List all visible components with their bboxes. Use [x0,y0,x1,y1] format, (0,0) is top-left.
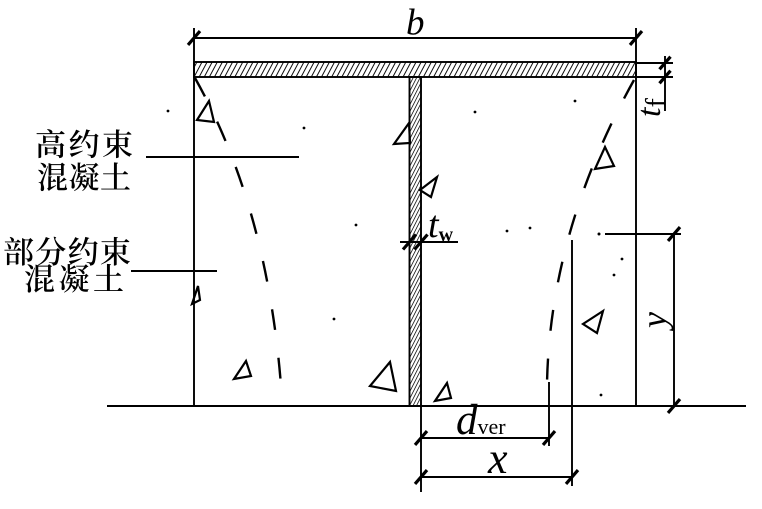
label 混凝土 (line 2) [38,162,130,191]
svg-text:b: b [406,3,425,44]
dashed crack curve left [195,78,282,400]
label y [634,312,674,331]
triangle aggregate 4 [370,362,396,391]
dimension b line [188,31,642,45]
triangle aggregate 9 [583,311,603,333]
svg-text:y: y [634,312,674,331]
dimension y line [598,227,682,413]
triangle aggregate 1 [197,101,214,122]
aggregate dots [167,100,624,397]
triangle aggregate 7 [420,177,437,197]
triangle aggregate 6 [394,123,410,144]
dimension d_ver [415,382,555,492]
steel web (hatched) [410,77,422,406]
leader line for 部分约束混凝土 [131,270,217,272]
label 高约束 [37,129,133,158]
leader line for 高约束混凝土 [146,156,299,158]
triangle aggregate 2 [192,286,200,304]
ground line [107,405,746,407]
steel flange (hatched) [194,62,636,77]
triangle aggregate 8 [595,147,614,169]
dashed crack curve right [547,80,634,405]
triangle aggregate 3 [234,361,251,379]
label 混凝土 (line 4) [25,264,123,293]
dimension t_w [400,235,458,250]
label 部分约束 [4,237,130,266]
dimension x [415,240,578,486]
label t_f [631,98,672,117]
left edge of section [193,28,195,406]
right edge of section [635,28,637,406]
dimension t_f extension lines [637,56,673,111]
triangle aggregate 5 [435,383,451,401]
svg-text:x: x [487,434,508,483]
